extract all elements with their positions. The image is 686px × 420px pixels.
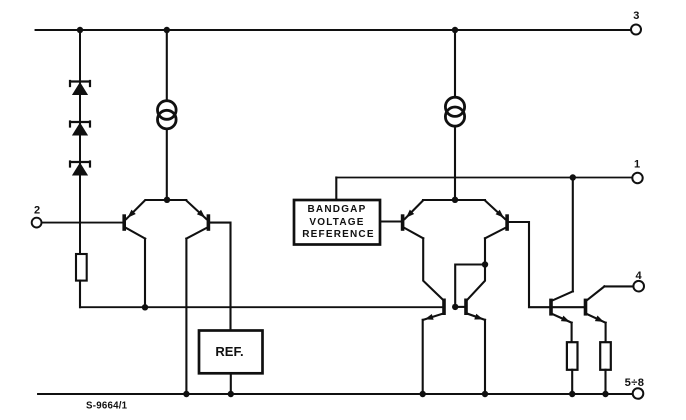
diode D1 xyxy=(70,81,90,95)
wire pin 1 line to BANDGAP top xyxy=(335,178,337,201)
wire Q4 collector to Q6 collector xyxy=(468,238,485,299)
wire top supply rail xyxy=(36,29,631,31)
resistor R1 xyxy=(76,254,87,281)
svg-text:4: 4 xyxy=(635,270,642,282)
transistor Q5 (NPN) mirror left xyxy=(423,299,446,323)
svg-text:S-9664/1: S-9664/1 xyxy=(86,400,128,411)
node R3 at bottom rail xyxy=(602,391,608,397)
wire pin 2 to Q1 base xyxy=(42,222,123,224)
node REF at bottom rail xyxy=(228,391,234,397)
wire R2 to bottom rail xyxy=(571,370,573,394)
svg-text:2: 2 xyxy=(34,205,40,217)
wire Q2 base to REF block xyxy=(210,223,230,330)
transistor Q8 (NPN) output right xyxy=(584,286,606,324)
wire Q8 emitter to R3 xyxy=(605,323,607,343)
wire R3 to bottom rail xyxy=(604,370,606,394)
transistor Q6 (NPN) mirror right xyxy=(455,299,485,323)
node mirror bases xyxy=(452,304,458,310)
transistor Q2 (PNP) xyxy=(186,201,210,239)
node top rail / diode chain xyxy=(77,27,83,33)
transistor Q7 (NPN) output left xyxy=(549,291,573,324)
wire bottom ground rail xyxy=(38,393,633,395)
node Q6 emitter at bottom rail xyxy=(482,391,488,397)
wire top rail to I2 xyxy=(454,30,456,97)
wire Q6 emitter to bottom rail xyxy=(484,320,486,394)
wire Q4 base to output pair bases xyxy=(509,222,584,307)
node left tail junction xyxy=(164,197,170,203)
diode D2 xyxy=(70,122,90,136)
node top rail / current source I1 xyxy=(164,27,170,33)
pin 1 terminal xyxy=(632,173,642,183)
wire BANDGAP to Q3 base xyxy=(380,220,401,222)
pin 2 terminal xyxy=(32,218,42,228)
diode D3 xyxy=(70,162,90,176)
node R2 at bottom rail xyxy=(569,391,575,397)
wire I1 to left pair tail xyxy=(166,129,168,200)
node Q1 collector / base bus xyxy=(142,304,148,310)
wire diode chain vertical xyxy=(79,30,81,254)
transistor Q3 (PNP) xyxy=(401,201,423,239)
transistor Q1 (PNP) xyxy=(122,201,145,239)
transistor Q4 (PNP) xyxy=(485,201,509,239)
wire Q2 collector to bottom rail xyxy=(185,239,187,395)
wire Q7 collector to pin 1 line xyxy=(572,178,574,292)
wire top rail to I1 xyxy=(166,30,168,101)
node pin 1 line / Q7 collector xyxy=(570,174,576,180)
wire Q7 emitter to R2 xyxy=(571,323,573,343)
node right tail junction xyxy=(452,197,458,203)
node Q6 collector / base tie xyxy=(482,261,488,267)
current source I2 xyxy=(445,97,464,126)
svg-text:REF.: REF. xyxy=(215,344,243,359)
node Q2 collector at bottom rail xyxy=(183,391,189,397)
node top rail / current source I2 xyxy=(452,27,458,33)
wire I2 to right pair tail xyxy=(454,126,456,200)
node Q5 emitter at bottom rail xyxy=(420,391,426,397)
svg-text:3: 3 xyxy=(633,10,639,22)
wire pin 1 line xyxy=(336,177,632,179)
wire Q5 emitter to bottom rail xyxy=(422,320,424,394)
svg-text:REFERENCE: REFERENCE xyxy=(302,229,374,240)
wire left pair tail xyxy=(146,199,187,201)
current source I1 xyxy=(158,101,177,129)
wire REF to bottom rail xyxy=(230,373,232,394)
block BANDGAP VOLTAGE REFERENCE xyxy=(294,200,380,245)
svg-text:1: 1 xyxy=(634,159,640,171)
resistor R2 xyxy=(567,342,578,370)
block REF xyxy=(199,331,263,374)
pin 5÷8 terminal xyxy=(633,388,644,399)
pin 3 terminal xyxy=(631,25,641,35)
wire right pair tail xyxy=(423,199,485,201)
wire Q8 collector to pin 4 xyxy=(604,285,633,287)
resistor R3 xyxy=(600,342,611,370)
pin 4 terminal xyxy=(633,281,644,292)
wire base bus to current mirror xyxy=(80,306,443,308)
wire Q1 collector down xyxy=(144,239,146,308)
wire mirror base tie hook xyxy=(455,265,485,307)
svg-text:VOLTAGE: VOLTAGE xyxy=(309,217,364,228)
svg-text:BANDGAP: BANDGAP xyxy=(308,204,367,215)
wire R1 bottom to base bus xyxy=(79,281,81,308)
svg-text:5÷8: 5÷8 xyxy=(625,377,645,389)
wire Q3 collector to Q5 collector xyxy=(423,238,442,299)
